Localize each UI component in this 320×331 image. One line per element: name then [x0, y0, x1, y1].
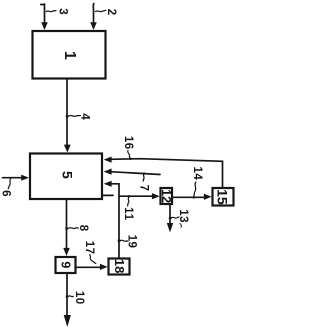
wire 10 (down from block 9, arrow out)	[64, 274, 71, 327]
svg-text:2: 2	[105, 9, 117, 15]
wire 13 (down from block 12, arrow)	[167, 205, 173, 233]
block 12	[159, 188, 173, 204]
wire 8 (block 5 to block 9)	[63, 200, 70, 256]
leader squiggle 17	[90, 255, 96, 264]
leader squiggle 16	[128, 151, 131, 159]
svg-text:16: 16	[122, 136, 134, 150]
svg-text:1: 1	[61, 51, 78, 60]
leader squiggle 2	[96, 10, 106, 11]
leader squiggle 10	[68, 295, 73, 298]
svg-text:4: 4	[79, 113, 91, 120]
leader squiggle 4	[69, 114, 81, 117]
svg-text:10: 10	[73, 291, 85, 305]
wire 4 (block 1 to block 5)	[64, 80, 71, 153]
leader squiggle 3	[46, 11, 56, 12]
svg-text:9: 9	[58, 261, 72, 268]
leader squiggle 7	[143, 174, 144, 182]
block 15	[213, 188, 234, 206]
wire 3 (arrow into block 1 top-left)	[41, 4, 48, 30]
wire into block 12 (arrow)	[119, 193, 160, 199]
leader squiggle 13	[171, 217, 179, 218]
leader squiggle 14	[194, 182, 196, 196]
block 1	[33, 31, 106, 79]
wire 7 (into block 5 right, middle arrow)	[104, 169, 160, 175]
svg-text:13: 13	[177, 209, 189, 223]
leader squiggle 19	[118, 239, 128, 242]
svg-text:5: 5	[59, 171, 75, 179]
svg-text:8: 8	[77, 225, 89, 232]
svg-text:18: 18	[112, 259, 127, 273]
svg-text:15: 15	[215, 189, 231, 205]
wire 11/19 vertical (down to block 18) with arrow into block 5 right, bottom arrow	[104, 181, 119, 258]
stray tick below label 13	[180, 224, 181, 228]
block 5	[30, 154, 102, 200]
block 9	[56, 257, 76, 273]
svg-text:17: 17	[83, 241, 95, 255]
leader squiggle 6	[8, 179, 11, 189]
svg-text:3: 3	[57, 8, 69, 14]
wire 14 (block 12 to block 15, arrow)	[173, 194, 212, 200]
svg-text:11: 11	[122, 207, 134, 221]
svg-text:12: 12	[159, 189, 173, 203]
stub from block 5 lower right	[103, 194, 113, 196]
wire 6 (arrow into block 5 left)	[3, 175, 30, 181]
wire 17 (block 9 to block 18, arrow)	[77, 264, 108, 270]
svg-text:14: 14	[191, 167, 203, 181]
leader squiggle 8	[68, 227, 78, 230]
wire 2 (arrow into block 1 top-right)	[90, 4, 97, 31]
svg-text:6: 6	[0, 190, 11, 196]
svg-text:19: 19	[125, 235, 137, 249]
leader squiggle 11	[128, 197, 129, 206]
wire 16 (from corner above block 15 into block 5 right, top arrow)	[104, 157, 223, 188]
svg-text:7: 7	[138, 185, 150, 191]
block 18	[109, 259, 130, 275]
